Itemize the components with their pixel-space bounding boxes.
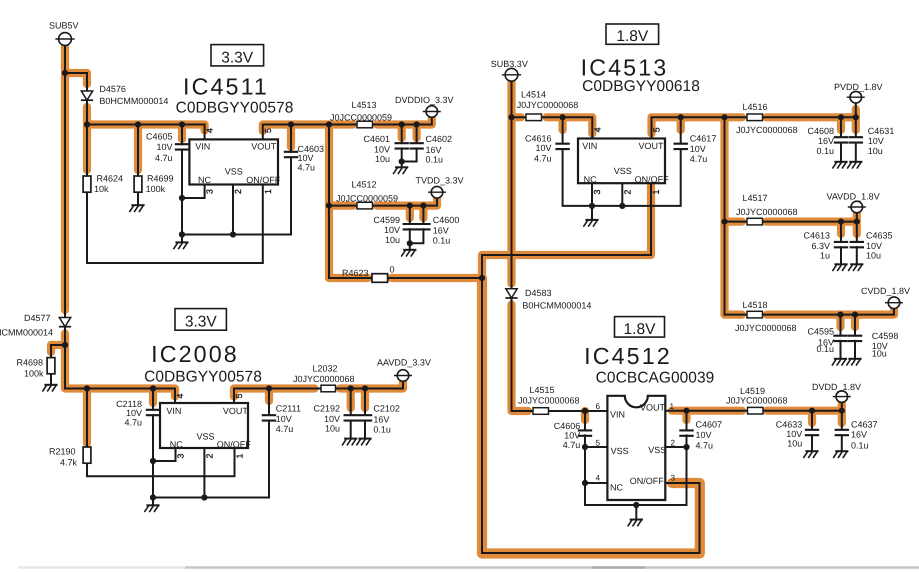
wire C4600 top lead (422, 206, 424, 224)
svg-text:VIN: VIN (582, 141, 597, 151)
capacitor C4602 (409, 143, 423, 148)
voltage label box 1.8V (IC4512) (615, 317, 665, 338)
wire R4698 bottom lead (50, 374, 52, 385)
svg-text:C4605: C4605 (146, 131, 173, 141)
svg-text:L2032: L2032 (312, 363, 337, 373)
svg-text:NC: NC (610, 483, 623, 493)
svg-text:VOUT: VOUT (251, 142, 277, 152)
pin label NC (IC4512) (610, 483, 623, 493)
ground IC4513 (583, 206, 598, 227)
wire stub to C4607 (orange) (682, 411, 690, 420)
label R2190 (49, 447, 76, 457)
junction C4613 (838, 219, 844, 225)
label C2192 (C2192) (313, 403, 340, 413)
pin label VSS right (IC4512) (648, 445, 666, 455)
pin label ON/OFF (IC4511) (246, 175, 280, 185)
label IC4512 (584, 343, 672, 369)
wire 1.8V trunk (724, 117, 726, 314)
label C4598 (C4598) (872, 331, 899, 341)
svg-text:J0JYC0000068: J0JYC0000068 (735, 323, 797, 333)
label C4631 (C4631) (868, 126, 895, 136)
net label DVDDIO_3.3V (395, 95, 454, 105)
value 10V (C4635) (866, 241, 882, 251)
value 0.1u (C4595) (816, 344, 834, 354)
pin label ON/OFF (IC4512) (630, 476, 664, 486)
wire C2118 top lead (152, 389, 154, 410)
wire IC4513 input bus before L4514 (orange) (512, 113, 522, 121)
wire IC2008 NC pin 3 elbow (153, 448, 176, 461)
svg-text:IC4513: IC4513 (581, 55, 669, 81)
node SUB5V tap (62, 70, 68, 76)
value 10u (C4598) (872, 348, 887, 358)
svg-text:4.7u: 4.7u (124, 417, 142, 427)
label IC2008 (151, 341, 239, 367)
wire C4613 top lead (840, 222, 842, 241)
wire C4605 bottom lead (181, 150, 183, 235)
pin label VIN (IC2008) (166, 406, 181, 416)
wire C2192 top lead (350, 389, 352, 415)
ground R4699 (129, 205, 144, 212)
power terminal TVDD_3.3V (428, 186, 446, 198)
pin number 2 (IC4512 VSS) (671, 439, 676, 448)
value 10u (C4631) (868, 146, 883, 156)
wire C2192 bottom lead (350, 421, 352, 438)
pin label VSS (IC4513) (614, 166, 632, 176)
pin label ON/OFF (IC2008) (217, 439, 251, 449)
svg-text:3: 3 (592, 189, 602, 194)
wire stub to C2192 (orange) (347, 389, 355, 409)
svg-text:L4514: L4514 (521, 89, 546, 99)
capacitor C4605 (175, 144, 189, 149)
svg-text:J0JCC0000059: J0JCC0000059 (330, 112, 392, 122)
net label SUB5V (49, 20, 79, 30)
value 10V (C4601) (374, 144, 390, 154)
svg-text:C4599: C4599 (373, 215, 400, 225)
junction IC2008 ground (150, 494, 156, 500)
capacitor C4603 (284, 152, 298, 157)
svg-text:16V: 16V (426, 145, 442, 155)
net label SUB3.3V (491, 59, 528, 69)
label L4518 (742, 300, 767, 310)
junction C4601/C4602 ground (399, 158, 405, 164)
value 10V (C2118) (126, 408, 142, 418)
wire IC4511 NC pin 3 elbow (182, 185, 205, 199)
svg-text:16V: 16V (851, 429, 867, 439)
power terminal PVDD_1.8V (847, 91, 865, 103)
capacitor C4613 (834, 242, 848, 247)
capacitor C4637 (835, 430, 849, 435)
svg-text:3: 3 (176, 453, 186, 458)
net label VAVDD_1.8V (827, 191, 880, 201)
svg-text:4: 4 (205, 128, 215, 133)
resistor R4699 (134, 176, 142, 192)
svg-text:4.7u: 4.7u (298, 163, 316, 173)
value 10V (C2192) (324, 414, 340, 424)
wire stub to C4595 (orange) (836, 315, 844, 327)
junction C4635/VAVDD (854, 219, 860, 225)
junction R2190 tap (84, 385, 90, 391)
label C4633 (C4633) (776, 419, 803, 429)
pin number 5 (IC2008 VOUT) (234, 393, 244, 398)
wire R4623 to node (388, 277, 482, 279)
wire D4583 cathode to IC4512 VIN (512, 298, 534, 411)
inductor L4515 (533, 408, 549, 415)
wire IC2008 VOUT riser and bus (234, 382, 403, 403)
wire stub to R2190 (orange) (83, 389, 91, 444)
value 16V (C4595) (818, 337, 834, 347)
wire C4599 top lead (409, 206, 411, 224)
regulator IC4512 body (607, 396, 665, 500)
svg-text:2: 2 (622, 189, 632, 194)
label C4608 (C4608) (807, 126, 834, 136)
wire stub to C4637 (orange) (838, 411, 846, 423)
svg-text:4.7u: 4.7u (534, 153, 552, 163)
pin number 3 (IC2008 NC) (176, 453, 186, 458)
junction C4633 (809, 408, 815, 414)
value 16V (C4602) (426, 145, 442, 155)
diode D4576 (81, 91, 93, 100)
capacitor C4607 (679, 430, 693, 435)
resistor R4698 (47, 358, 55, 374)
junction C2102 (362, 385, 368, 391)
svg-text:0.1u: 0.1u (851, 440, 869, 450)
svg-text:C2192: C2192 (313, 403, 340, 413)
value 10V (C4605) (156, 142, 172, 152)
ground IC4512 (628, 505, 643, 526)
svg-text:C4606: C4606 (554, 421, 581, 431)
pin label ON/OFF (IC4513) (635, 175, 669, 185)
svg-text:1u: 1u (820, 250, 830, 260)
wire IC4513 VOUT riser and bus (orange) (652, 117, 743, 133)
svg-text:10V: 10V (324, 414, 340, 424)
wire IC4513 input bus after L4514 (orange) (547, 117, 593, 133)
svg-text:J0JYC0000068: J0JYC0000068 (726, 396, 788, 406)
svg-text:10V: 10V (866, 241, 882, 251)
label L4518 part number (735, 323, 797, 333)
svg-text:10u: 10u (385, 235, 400, 245)
wire IC4513 VOUT riser and bus (652, 104, 856, 139)
wire C4616 lead (562, 117, 564, 143)
wire node to bottom rail to IC4512 ON/OFF (482, 278, 700, 553)
inductor L4516 (747, 114, 763, 121)
wire stub to R4624 (orange) (83, 125, 91, 171)
svg-text:C4598: C4598 (872, 331, 899, 341)
diode D4583 (505, 289, 517, 298)
svg-text:VSS: VSS (611, 446, 629, 456)
wire stub to C4598 (orange) (851, 315, 859, 327)
ground C2102 (356, 438, 371, 446)
capacitor C2102 (358, 415, 372, 420)
wire IC4511 VOUT riser (263, 125, 329, 140)
wire IC4512 NC pin 4 and vertical (585, 483, 607, 505)
wire C4605 top lead (181, 125, 183, 145)
value 4.7u (C2118) (124, 417, 142, 427)
label R4624 (97, 173, 124, 183)
wire C2102 top lead (364, 389, 366, 415)
svg-text:10V: 10V (690, 144, 706, 154)
wire C4633 top lead (811, 411, 813, 430)
label C4603 (C4603) (298, 144, 325, 154)
wire to IC2008 input bus (orange) (65, 345, 175, 397)
svg-text:100k: 100k (24, 369, 44, 379)
label IC4513 (581, 55, 669, 81)
label IC4511 (183, 73, 269, 99)
svg-text:6: 6 (596, 402, 601, 411)
svg-text:10V: 10V (156, 142, 172, 152)
wire C4600 bottom bracket (410, 229, 424, 243)
inductor L4513 (357, 121, 373, 128)
label D4583 part number (522, 300, 591, 310)
junction C4608 (838, 114, 844, 120)
value 10u (C4633) (787, 438, 802, 448)
inductor L4512 (357, 202, 373, 209)
label C4595 (C4595) (807, 326, 834, 336)
svg-text:VSS: VSS (225, 167, 243, 177)
voltage label 1.8V (IC4512) (624, 321, 657, 338)
svg-text:VAVDD_1.8V: VAVDD_1.8V (827, 191, 880, 201)
svg-text:3: 3 (205, 189, 215, 194)
value 4.7u (C4607) (696, 441, 714, 451)
svg-text:5: 5 (263, 128, 273, 133)
wire VAVDD branch after L4517 (orange) (767, 214, 857, 222)
svg-text:L4519: L4519 (740, 386, 765, 396)
value 4.7u (C2111) (276, 424, 294, 434)
regulator IC4513 body (578, 139, 665, 184)
junction NC elbow on C4605 lead (179, 195, 185, 201)
capacitor C4599 (403, 224, 417, 229)
svg-text:NC: NC (198, 175, 211, 185)
pin label VOUT (IC4513) (639, 141, 665, 151)
ground C2192 (342, 438, 357, 446)
ground C4631 (847, 162, 862, 169)
svg-text:C0CBCAG00039: C0CBCAG00039 (596, 370, 715, 387)
svg-text:C0DBGYY00578: C0DBGYY00578 (144, 369, 262, 386)
pin label NC (IC4513) (584, 175, 597, 185)
label L4513 (351, 100, 376, 110)
junction DVDDIO vertical (326, 121, 332, 127)
svg-text:D4583: D4583 (525, 288, 552, 298)
junction C4603 (288, 121, 294, 127)
power terminal SUB3.3V (502, 68, 521, 81)
svg-text:J0JYC0000068: J0JYC0000068 (736, 207, 798, 217)
net label CVDD_1.8V (861, 286, 910, 296)
wire stub to C2111 (orange) (265, 389, 273, 402)
wire stub to C4602 (orange) (413, 125, 421, 139)
ground C4608 (832, 162, 847, 169)
wire C4616 bottom to ground rail (563, 149, 681, 206)
net label AAVDD_3.3V (377, 357, 431, 367)
junction C4606 (582, 408, 588, 414)
junction IC4513 VSS (619, 203, 625, 209)
svg-text:16V: 16V (433, 225, 449, 235)
svg-text:B0HCMM000014: B0HCMM000014 (99, 96, 168, 106)
wire C4617 top lead (680, 117, 682, 143)
svg-text:4.7k: 4.7k (60, 458, 78, 468)
svg-text:ON/OFF: ON/OFF (630, 476, 664, 486)
svg-text:VOUT: VOUT (639, 141, 665, 151)
capacitor C4635 (850, 242, 864, 247)
junction C4637/DVDD (839, 408, 845, 414)
label L4515 part number (518, 395, 580, 405)
wire C4606 bottom lead to VSS pin 5 (585, 435, 607, 447)
wire IC2008 ON/OFF pin 1 loop (87, 448, 235, 476)
svg-text:R4623: R4623 (342, 268, 369, 278)
svg-text:4: 4 (596, 474, 601, 483)
wire CVDD branch before L4518 (orange) (725, 311, 743, 319)
svg-text:C4633: C4633 (776, 419, 803, 429)
capacitor C4608 (834, 137, 848, 142)
wire C4608 top lead (840, 117, 842, 136)
svg-text:J0JYC0000068: J0JYC0000068 (736, 125, 798, 135)
wire SUB5V elbow to D4576 (65, 73, 87, 91)
wire C4602 top lead (416, 125, 418, 144)
wire stub to C4605 (orange) (178, 125, 186, 140)
wire D4583 cathode down to IC4512 (orange) (512, 305, 529, 412)
ground C4613 (832, 264, 847, 271)
wire stub to C4616 (orange) (558, 117, 566, 130)
svg-text:J0JYC0000068: J0JYC0000068 (518, 395, 580, 405)
wire stub to R4698 (orange) (51, 345, 65, 352)
pin number 3 (IC4511 NC) (205, 189, 215, 194)
wire 1.8V trunk vertical (orange) (720, 117, 728, 314)
wire D4576 cathode to IC4511 input bus (orange) (83, 107, 91, 125)
junction C2118 tap (150, 385, 156, 391)
voltage label 1.8V (IC4513) (616, 28, 649, 45)
pin number 1 (IC2008 ON/OFF) (235, 453, 245, 458)
label L4514 part number (517, 100, 579, 110)
svg-text:VIN: VIN (610, 410, 625, 420)
resistor R4624 (83, 176, 91, 192)
pin label VSS left (IC4512) (611, 446, 629, 456)
wire IC4511 input bus (orange) (87, 125, 205, 131)
wire node down to bottom rail (orange) (482, 278, 700, 554)
junction C4599 (407, 203, 413, 209)
diode D4577 (59, 318, 71, 327)
junction IC2008 VSS (201, 494, 207, 500)
wire C4633 bottom lead (811, 435, 813, 450)
junction C4600 (420, 203, 426, 209)
inductor L4514 (526, 114, 542, 121)
ground C4599/C4600 (401, 243, 416, 256)
value 4.7u (C4617) (690, 154, 708, 164)
value 0.1u (C4602) (426, 154, 444, 164)
svg-text:VSS: VSS (197, 431, 215, 441)
wire C4598 top lead (854, 315, 856, 335)
junction D4576/R4624 (84, 121, 90, 127)
power terminal CVDD_1.8V (885, 297, 903, 309)
label C4599 (C4599) (373, 215, 400, 225)
power terminal DVDDIO_3.3V (423, 106, 441, 118)
label C0DBGYY00578 (IC4511) (176, 99, 294, 116)
pin number 5 (IC4511 VOUT) (263, 128, 273, 133)
wire CVDD branch after L4518 (orange) (767, 310, 894, 315)
svg-text:VOUT: VOUT (223, 406, 249, 416)
voltage label box 3.3V (IC2008) (175, 309, 226, 331)
value 10V (C2111) (276, 414, 292, 424)
svg-text:C4601: C4601 (363, 134, 390, 144)
svg-text:L4513: L4513 (351, 100, 376, 110)
wire L4515 to IC4512 VIN (549, 410, 607, 412)
svg-text:C0DBGYY00578: C0DBGYY00578 (176, 99, 294, 116)
pin number 1 (IC4512 VOUT) (670, 402, 675, 411)
svg-text:0.1u: 0.1u (373, 424, 391, 434)
wire R4623 line (329, 277, 372, 279)
value 16V (C2102) (373, 414, 389, 424)
wire C4603 top lead (290, 125, 292, 152)
wire DVDDIO branch after L4513 (orange) (377, 118, 432, 125)
label C4635 (C4635) (866, 230, 893, 240)
wire R4698 elbow (51, 345, 65, 358)
svg-text:1: 1 (651, 189, 661, 194)
label L4515 (529, 385, 554, 395)
voltage label box 1.8V (IC4513) (606, 24, 659, 44)
capacitor C4631 (849, 137, 863, 142)
wire C4637 bottom lead (841, 435, 843, 450)
svg-text:C4635: C4635 (866, 230, 893, 240)
junction IC4513 NC ground (589, 203, 595, 209)
inductor L4517 (747, 218, 763, 225)
svg-text:PVDD_1.8V: PVDD_1.8V (834, 82, 883, 92)
inductor L4518 (747, 311, 763, 318)
svg-text:C4616: C4616 (525, 133, 552, 143)
svg-text:16V: 16V (373, 414, 389, 424)
svg-text:C2111: C2111 (276, 403, 301, 413)
svg-text:DVDDIO_3.3V: DVDDIO_3.3V (395, 95, 454, 105)
pin number 4 (IC4511 VIN) (205, 128, 215, 133)
wire IC4511 ground rail (182, 234, 291, 236)
svg-text:R4699: R4699 (147, 173, 174, 183)
label L4513 part number (330, 112, 392, 122)
svg-text:10k: 10k (94, 184, 109, 194)
resistor R4623 (372, 274, 388, 283)
wire C4602 bottom bracket (402, 148, 417, 161)
capacitor C2111 (262, 415, 276, 420)
wire C4631 top lead (855, 117, 857, 136)
voltage label 3.3V (IC2008) (185, 314, 218, 331)
svg-text:100k: 100k (146, 184, 166, 194)
svg-text:TVDD_3.3V: TVDD_3.3V (416, 175, 464, 185)
ground R4698 (42, 385, 57, 392)
label C4607 (C4607) (696, 420, 723, 430)
label C4613 (C4613) (803, 230, 830, 240)
pin number 2 (IC4511 VSS) (233, 189, 243, 194)
wire IC4511 input bus (87, 125, 205, 140)
junction L4514 tap (508, 114, 514, 120)
junction IC4511 VSS (230, 231, 236, 237)
wire TVDD branch before L4512 (orange) (329, 202, 353, 210)
svg-text:5: 5 (652, 127, 662, 132)
svg-text:0.1u: 0.1u (816, 344, 834, 354)
wire stub to C4606 (orange) (581, 411, 589, 420)
power terminal DVDD_1.8V (833, 391, 851, 403)
pin label NC (IC2008) (170, 439, 183, 449)
wire stub to R4699 (orange) (134, 125, 142, 171)
wire IC4513 input bus (512, 117, 593, 138)
label C2102 (C2102) (373, 403, 400, 413)
svg-text:10u: 10u (375, 154, 390, 164)
value 10u (C4635) (866, 250, 881, 260)
value 10V (C4617) (690, 144, 706, 154)
ground C4633 (803, 450, 818, 458)
wire C4607 vertical to ground rail (686, 447, 688, 505)
svg-text:C4637: C4637 (851, 419, 878, 429)
pin label VIN (IC4512) (610, 410, 625, 420)
value 16V (C4608) (818, 136, 834, 146)
value 4.7u (C4616) (534, 153, 552, 163)
pin label VSS (IC2008) (197, 431, 215, 441)
svg-text:R2190: R2190 (49, 447, 76, 457)
label D4583 (525, 288, 552, 298)
